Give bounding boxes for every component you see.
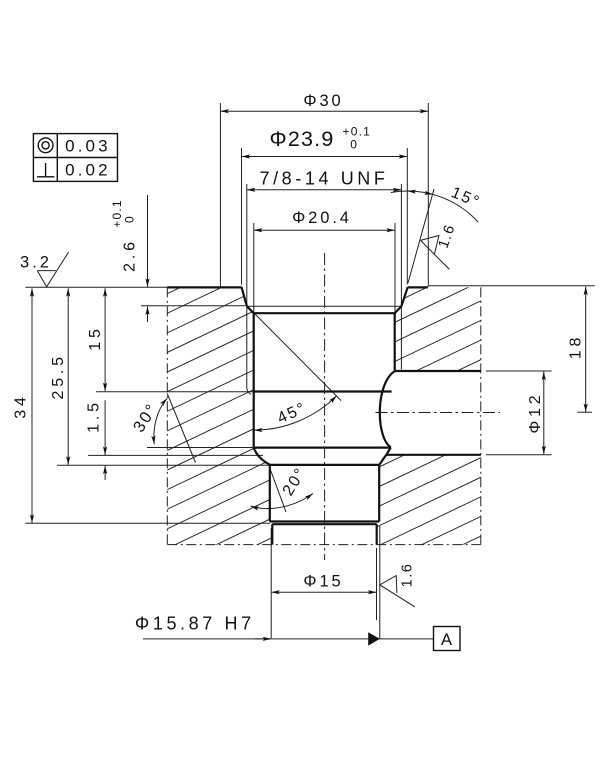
svg-text:+0.1: +0.1 [343,124,372,138]
svg-text:1.5: 1.5 [86,399,103,433]
svg-text:7/8-14 UNF: 7/8-14 UNF [259,168,388,188]
svg-text:1.6: 1.6 [400,563,416,588]
svg-text:25.5: 25.5 [50,353,67,399]
svg-text:2.6: 2.6 [122,238,139,272]
svg-text:A: A [441,631,452,649]
svg-text:Φ15: Φ15 [303,573,343,591]
svg-text:34: 34 [12,393,29,418]
svg-text:Φ23.9: Φ23.9 [270,127,335,151]
svg-text:15: 15 [87,325,104,350]
svg-text:0.03: 0.03 [65,137,111,156]
svg-text:3.2: 3.2 [20,254,52,272]
svg-text:18: 18 [568,334,585,359]
svg-text:Φ30: Φ30 [303,92,343,110]
svg-text:Φ15.87 H7: Φ15.87 H7 [135,614,255,634]
svg-text:0: 0 [123,215,137,223]
svg-text:Φ12: Φ12 [527,392,544,434]
svg-text:0: 0 [350,137,358,151]
svg-text:0.02: 0.02 [65,160,111,179]
svg-text:Φ20.4: Φ20.4 [292,209,352,227]
